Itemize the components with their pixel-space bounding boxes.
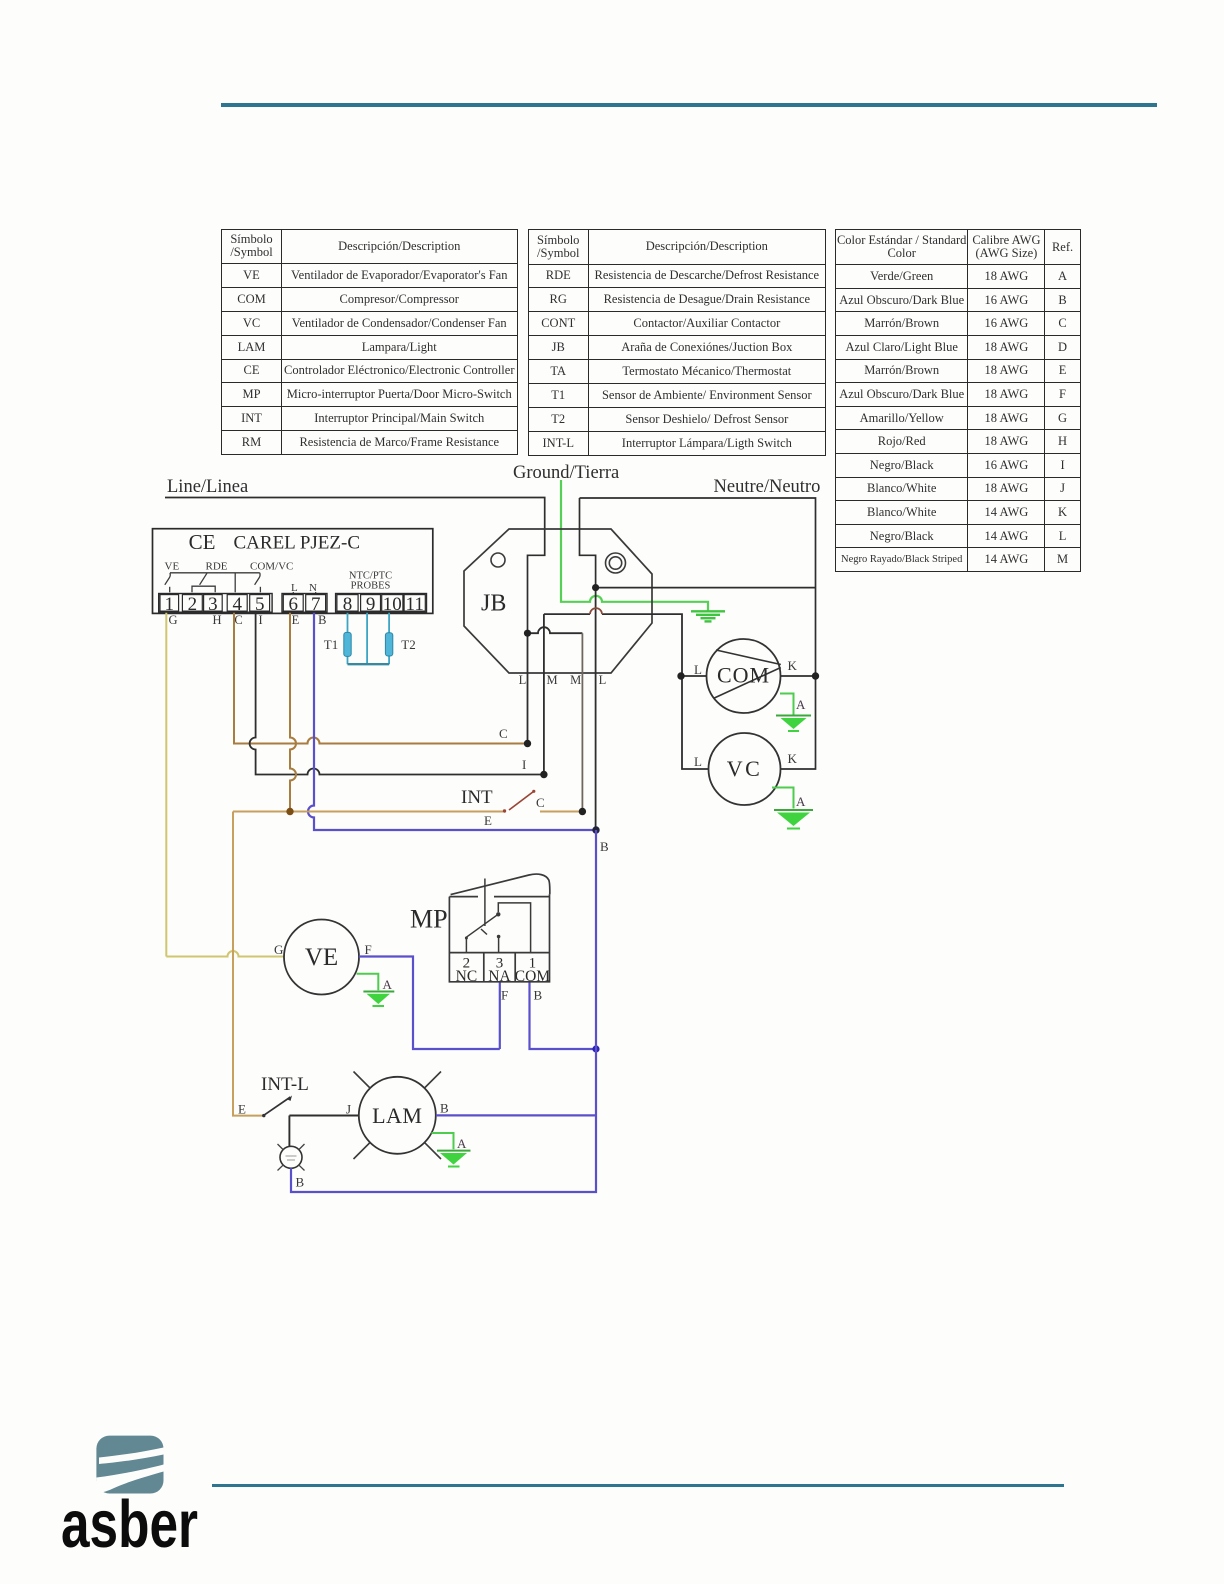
svg-text:RDE: RDE (206, 561, 228, 573)
svg-text:LAM: LAM (372, 1103, 422, 1128)
wire ref labels G H C I E B under terminals (168, 613, 326, 627)
MP terminal texts (463, 956, 537, 972)
wire COM K (781, 675, 816, 677)
wire color table (835, 229, 1081, 572)
svg-text:asber: asber (61, 1487, 198, 1562)
junction dot node B mid (blue) (592, 1045, 599, 1052)
svg-text:I: I (259, 613, 263, 627)
wire JB internal L drop to C junction (527, 633, 529, 743)
lamp LAM rays (354, 1072, 442, 1160)
logo mark (96, 1436, 163, 1494)
ground VC (772, 788, 794, 809)
svg-text:E: E (484, 813, 492, 828)
svg-text:INT-L: INT-L (261, 1074, 309, 1095)
wire pilot lamp to node B bottom loop (291, 830, 596, 1192)
microswitch MP body (449, 874, 549, 982)
svg-text:CE: CE (189, 530, 216, 554)
svg-text:7: 7 (311, 594, 321, 615)
svg-text:11: 11 (406, 594, 424, 615)
svg-text:B: B (600, 839, 609, 854)
svg-text:COM/VC: COM/VC (250, 561, 293, 573)
junction dot JB internal left (524, 630, 531, 637)
sensor T1 (344, 632, 351, 656)
fan VE circle (284, 920, 359, 995)
svg-text:5: 5 (255, 594, 265, 615)
svg-text:2: 2 (188, 594, 198, 615)
asber logo icon (0, 1400, 300, 1584)
svg-text:9: 9 (366, 594, 376, 615)
wire JB internal to COM/VC L (544, 614, 709, 774)
svg-text:A: A (796, 794, 806, 809)
wire INT-L junction down to pilot lamp (288, 1116, 290, 1147)
svg-text:B: B (534, 988, 543, 1003)
svg-text:A: A (796, 697, 806, 712)
svg-text:PROBES: PROBES (351, 581, 391, 592)
svg-text:E: E (238, 1102, 246, 1117)
wire LAM B blue (436, 1114, 596, 1116)
svg-text:T2: T2 (401, 637, 415, 652)
junction dot C (524, 740, 531, 747)
svg-text:Ground/Tierra: Ground/Tierra (513, 463, 619, 483)
fan VC circle (709, 733, 781, 805)
microswitch MP internals (466, 879, 531, 953)
junction dot E (brown) (286, 808, 293, 815)
svg-text:I: I (522, 757, 526, 772)
ground COM (780, 694, 794, 715)
svg-text:INT: INT (461, 787, 493, 808)
svg-text:VE: VE (305, 944, 338, 971)
svg-text:F: F (501, 988, 508, 1003)
svg-text:G: G (168, 613, 177, 627)
wire INT-L to LAM J (289, 1115, 358, 1117)
symbol table 1 (221, 229, 518, 456)
svg-text:Neutre/Neutro: Neutre/Neutro (714, 477, 821, 497)
relay contact bus and contacts inside CE (165, 573, 261, 593)
wire B blue terminal7 to node B (308, 613, 596, 830)
switch INT (233, 811, 503, 813)
wire COM L (681, 675, 707, 677)
svg-text:A: A (383, 977, 393, 992)
wire E brown terminal6 to INT (290, 613, 296, 812)
wire Line feeder into JB (165, 498, 545, 634)
svg-text:4: 4 (232, 594, 242, 615)
svg-text:C: C (499, 726, 508, 741)
junction dot node B top (592, 826, 599, 833)
junction dot I (540, 771, 547, 778)
svg-text:C: C (536, 795, 545, 810)
svg-text:6: 6 (289, 594, 299, 615)
svg-text:10: 10 (383, 594, 402, 615)
JB terminal labels L M M L (519, 673, 607, 687)
wire T probes light blue (348, 613, 390, 665)
switch INT-L lever (263, 1097, 290, 1116)
svg-text:Line/Linea: Line/Linea (167, 477, 248, 497)
svg-text:H: H (212, 613, 221, 627)
wire JB internal right riser (580, 498, 596, 588)
svg-text:MP: MP (410, 905, 448, 934)
bottom teal rule (212, 1484, 1064, 1488)
svg-text:NC: NC (456, 968, 478, 985)
svg-text:B: B (296, 1175, 305, 1190)
svg-text:M: M (546, 673, 557, 687)
JB mounting hole right (double) (606, 553, 626, 573)
top teal rule (221, 103, 1157, 106)
junction box JB octagon (464, 529, 652, 673)
svg-text:L: L (694, 754, 702, 769)
wire INT-L tan drop (233, 812, 263, 1116)
wire Neutre feeder to COM/VC K (580, 498, 816, 769)
svg-text:J: J (346, 1102, 351, 1117)
terminal cells 1-11 (160, 595, 425, 612)
svg-text:B: B (440, 1101, 449, 1116)
svg-text:K: K (788, 751, 798, 766)
svg-text:F: F (365, 942, 372, 957)
ground LAM (432, 1133, 454, 1149)
svg-text:L: L (519, 673, 527, 687)
svg-text:1: 1 (165, 594, 175, 615)
wire MP COM blue to node B (530, 982, 597, 1049)
svg-text:JB: JB (481, 591, 506, 617)
svg-text:M: M (570, 673, 581, 687)
terminal strip group boxes (159, 594, 427, 613)
svg-text:3: 3 (208, 594, 218, 615)
svg-text:E: E (292, 613, 300, 627)
svg-text:K: K (788, 658, 798, 673)
junction dot JB internal right (592, 584, 599, 591)
svg-text:B: B (318, 613, 326, 627)
svg-text:A: A (457, 1136, 467, 1151)
wire VE F blue to MP NA (359, 957, 500, 1050)
pilot lamp (280, 1146, 302, 1168)
ground VE (357, 974, 379, 991)
JB mounting hole left (491, 553, 505, 567)
svg-text:VC: VC (727, 756, 763, 781)
wire C brown terminal4 to JB L (234, 613, 528, 744)
svg-text:VE: VE (165, 561, 180, 573)
wire JB internal bridge to M2 (528, 627, 583, 633)
wire JB M2 drop to INT junction (581, 633, 583, 811)
svg-text:NA: NA (488, 968, 511, 985)
terminal numbers 1-11 (165, 594, 424, 615)
motor COM circle (707, 639, 781, 713)
svg-text:L: L (599, 673, 607, 687)
sensor T2 (385, 633, 392, 656)
symbol table 2 (528, 229, 826, 456)
wire JB K bus to COM (596, 587, 816, 589)
wire ground green into JB (561, 480, 708, 611)
wire JB L2 drop to node B (595, 588, 597, 830)
svg-text:COM: COM (717, 663, 770, 688)
svg-text:CAREL PJEZ-C: CAREL PJEZ-C (234, 533, 361, 554)
junction dot INT-C (579, 808, 586, 815)
svg-text:C: C (234, 613, 242, 627)
svg-text:L: L (694, 662, 702, 677)
svg-text:L: L (291, 582, 298, 594)
svg-text:8: 8 (343, 594, 353, 615)
svg-text:T1: T1 (324, 637, 338, 652)
svg-text:COM: COM (515, 968, 551, 985)
svg-text:G: G (274, 942, 283, 957)
wire I black terminal5 to JB M (250, 613, 544, 775)
controller CE box (153, 529, 433, 614)
wire G yellow terminal1 to VE (166, 613, 284, 957)
lamp LAM circle (359, 1077, 436, 1154)
ground symbol at JB (691, 611, 725, 621)
